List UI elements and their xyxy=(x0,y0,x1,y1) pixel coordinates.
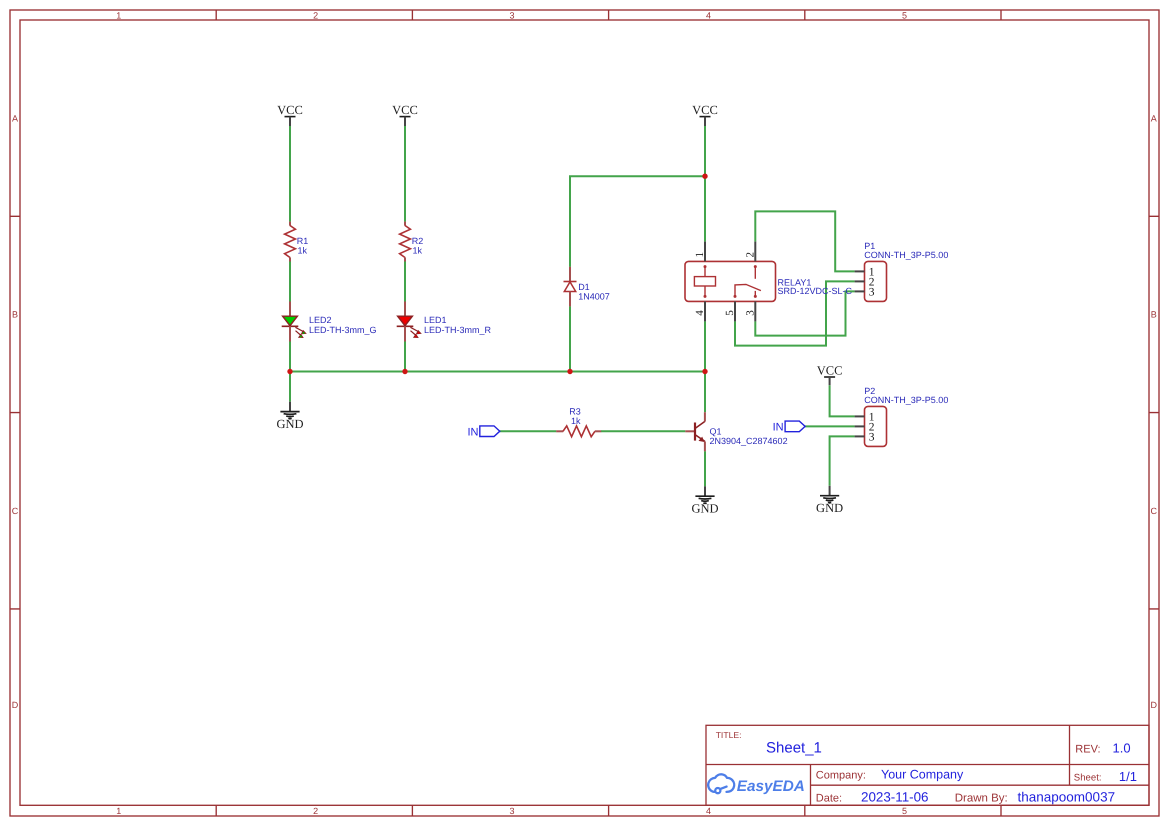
svg-text:3: 3 xyxy=(509,10,514,20)
P2 pin 3 stub xyxy=(855,435,865,437)
LED LED2 (green) xyxy=(282,302,377,342)
wire VCC1 to R1 xyxy=(289,126,291,222)
svg-text:D: D xyxy=(12,700,19,710)
svg-text:5: 5 xyxy=(724,310,736,316)
svg-text:A: A xyxy=(12,113,18,123)
svg-text:D: D xyxy=(1151,700,1158,710)
wire bus to Q1 collector xyxy=(704,372,706,413)
wire bus to GND1 xyxy=(289,372,291,402)
svg-text:CONN-TH_3P-P5.00: CONN-TH_3P-P5.00 xyxy=(864,395,948,405)
svg-text:GND: GND xyxy=(691,501,718,515)
svg-text:4: 4 xyxy=(694,310,706,316)
relay RELAY1 SRD-12VDC-SL-C xyxy=(685,242,853,322)
relay pin 5 stub xyxy=(734,301,736,321)
svg-text:2: 2 xyxy=(313,806,318,816)
relay contact xyxy=(735,268,761,296)
svg-text:REV:: REV: xyxy=(1075,743,1100,755)
wire LED1 to bus xyxy=(404,341,406,371)
svg-text:CONN-TH_3P-P5.00: CONN-TH_3P-P5.00 xyxy=(864,250,948,260)
svg-text:Company:: Company: xyxy=(816,769,866,781)
relay pin 1 stub xyxy=(704,242,706,262)
svg-text:Sheet_1: Sheet_1 xyxy=(766,740,822,757)
svg-text:C: C xyxy=(1151,506,1158,516)
svg-text:2N3904_C2874602: 2N3904_C2874602 xyxy=(710,436,788,446)
svg-text:1k: 1k xyxy=(298,246,308,256)
svg-text:GND: GND xyxy=(276,417,303,431)
svg-text:A: A xyxy=(1151,113,1157,123)
P1 pin 1 stub xyxy=(855,270,865,272)
svg-text:IN: IN xyxy=(468,426,479,438)
svg-text:1k: 1k xyxy=(413,246,423,256)
resistor R2 xyxy=(400,222,424,262)
svg-text:1/1: 1/1 xyxy=(1119,769,1137,784)
relay coil xyxy=(694,268,715,296)
wire IN1 to R3 xyxy=(500,430,557,432)
svg-text:3: 3 xyxy=(509,806,514,816)
wire R2 to LED1 xyxy=(404,261,406,301)
svg-text:1N4007: 1N4007 xyxy=(578,291,610,301)
wire P2 pin3 to GND3 xyxy=(830,436,855,485)
junction bus/LED1 xyxy=(402,369,407,374)
svg-text:EasyEDA: EasyEDA xyxy=(737,778,805,795)
ground GND2 (under Q1) xyxy=(691,486,718,515)
wire Q1 emitter to GND2 xyxy=(704,451,706,486)
power flag VCC (R1 column) xyxy=(277,103,303,126)
resistor R3 xyxy=(556,407,601,437)
wire VCC3 down to relay pin1 xyxy=(704,126,706,242)
svg-text:IN: IN xyxy=(773,422,784,434)
relay pin 4 stub xyxy=(704,301,706,321)
svg-text:thanapoom0037: thanapoom0037 xyxy=(1018,790,1116,805)
svg-text:Your Company: Your Company xyxy=(881,767,964,781)
svg-text:Sheet:: Sheet: xyxy=(1074,773,1102,784)
svg-text:1: 1 xyxy=(116,10,121,20)
junction bus/D1 xyxy=(567,369,572,374)
wire P1 pin3 to relay pin3 xyxy=(755,291,854,335)
netflag IN (to R3) xyxy=(468,426,500,439)
svg-text:GND: GND xyxy=(816,501,843,515)
svg-text:5: 5 xyxy=(902,806,907,816)
relay pin 3 stub xyxy=(754,301,756,321)
wire D1 bottom to bus xyxy=(569,306,571,371)
wire relay pin2 to P1 pin1 xyxy=(755,211,854,271)
P1 pin 3 stub xyxy=(855,290,865,292)
wire VCC4 to P2 pin1 xyxy=(830,385,855,416)
power flag VCC (R2 column) xyxy=(392,103,418,126)
svg-text:LED-TH-3mm_G: LED-TH-3mm_G xyxy=(309,325,377,335)
svg-text:2: 2 xyxy=(745,252,757,258)
ground GND3 (under P2) xyxy=(816,486,843,515)
svg-text:C: C xyxy=(12,506,19,516)
wire IN2 to P2 pin2 xyxy=(805,425,855,427)
EasyEDA logo cloud xyxy=(708,774,734,793)
wire P1 pin2 to relay pin5 xyxy=(735,281,855,345)
wire R1 to LED2 xyxy=(289,261,291,301)
svg-text:4: 4 xyxy=(706,10,711,20)
svg-text:VCC: VCC xyxy=(392,103,418,117)
svg-text:VCC: VCC xyxy=(277,103,303,117)
svg-text:LED2: LED2 xyxy=(309,315,332,325)
P1 pin 2 stub xyxy=(855,280,865,282)
svg-text:2023-11-06: 2023-11-06 xyxy=(861,790,929,805)
power flag VCC (P2 column) xyxy=(817,364,843,386)
wire relay pin4 to bus xyxy=(704,321,706,371)
connector P2 CONN-TH_3P-P5.00 xyxy=(855,386,949,446)
svg-text:3: 3 xyxy=(745,310,757,316)
junction bus/Q1 xyxy=(702,369,707,374)
svg-text:TITLE:: TITLE: xyxy=(716,730,742,740)
svg-text:2: 2 xyxy=(313,10,318,20)
P2 pin 2 stub xyxy=(855,425,865,427)
P2 pin 1 stub xyxy=(855,415,865,417)
netflag IN (to P2) xyxy=(773,421,806,434)
svg-text:R2: R2 xyxy=(412,236,424,246)
svg-text:Date:: Date: xyxy=(816,792,842,804)
svg-text:LED-TH-3mm_R: LED-TH-3mm_R xyxy=(424,325,492,335)
LED LED1 (red) xyxy=(397,302,492,342)
power flag VCC (relay column) xyxy=(692,103,718,126)
svg-text:LED1: LED1 xyxy=(424,315,447,325)
svg-text:Q1: Q1 xyxy=(710,426,722,436)
connector P1 CONN-TH_3P-P5.00 xyxy=(855,241,949,301)
svg-text:5: 5 xyxy=(902,10,907,20)
relay pin 2 stub xyxy=(754,242,756,262)
svg-text:1.0: 1.0 xyxy=(1113,740,1131,755)
diode D1 1N4007 xyxy=(564,267,610,307)
svg-text:1: 1 xyxy=(116,806,121,816)
svg-text:B: B xyxy=(1151,310,1157,320)
svg-text:3: 3 xyxy=(869,287,875,299)
resistor R1 xyxy=(285,222,309,262)
wire VCC3 branch to D1 top xyxy=(570,176,705,267)
transistor Q1 2N3904 xyxy=(685,412,787,451)
ground GND1 (under LED rail) xyxy=(276,402,303,431)
svg-text:1k: 1k xyxy=(571,416,581,426)
svg-text:R1: R1 xyxy=(297,236,309,246)
svg-text:3: 3 xyxy=(869,432,875,444)
svg-text:Drawn By:: Drawn By: xyxy=(955,792,1008,804)
svg-text:B: B xyxy=(12,310,18,320)
svg-text:4: 4 xyxy=(706,806,711,816)
junction bus/GND1 xyxy=(287,369,292,374)
svg-text:1: 1 xyxy=(694,252,706,258)
wire R3 to Q1 base xyxy=(601,430,685,432)
svg-text:VCC: VCC xyxy=(817,364,843,378)
wire bus GND rail xyxy=(290,371,705,373)
wire VCC2 to R2 xyxy=(404,126,406,222)
svg-text:VCC: VCC xyxy=(692,103,718,117)
wire LED2 to bus xyxy=(289,341,291,371)
junction VCC3/D1 branch xyxy=(702,174,707,179)
svg-text:SRD-12VDC-SL-C: SRD-12VDC-SL-C xyxy=(778,286,853,296)
